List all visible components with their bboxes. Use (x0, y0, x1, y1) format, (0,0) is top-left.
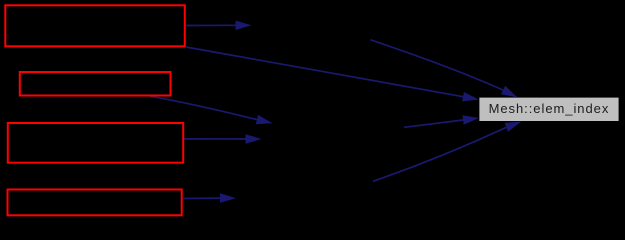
edge from box1 to Mesh::elem_index (arrow) (186, 47, 479, 101)
svg-text:Mesh::elem_index: Mesh::elem_index (489, 101, 610, 116)
red caller node box3 (truncated, label hidden) (8, 123, 183, 163)
edge from box1 to hidden node (arrow) (186, 21, 252, 31)
red caller node box1 (truncated, label hidden) (5, 5, 185, 46)
node Mesh::elem_index (current function, gray) (479, 98, 618, 121)
edge from hidden node to Mesh::elem_index left (arrow) (404, 115, 479, 127)
edge from box4 to hidden node (arrow) (183, 193, 236, 203)
edge from box2 to hidden node (arrow) (150, 96, 273, 124)
red caller node box4 (truncated, label hidden) (8, 190, 182, 216)
edge from box3 to hidden node (arrow) (184, 134, 262, 144)
red caller node box2 (truncated, label hidden) (20, 72, 171, 96)
edge from hidden node to Mesh::elem_index bottom (arrow) (373, 122, 521, 182)
edge from hidden node to Mesh::elem_index top (arrow) (371, 40, 518, 98)
